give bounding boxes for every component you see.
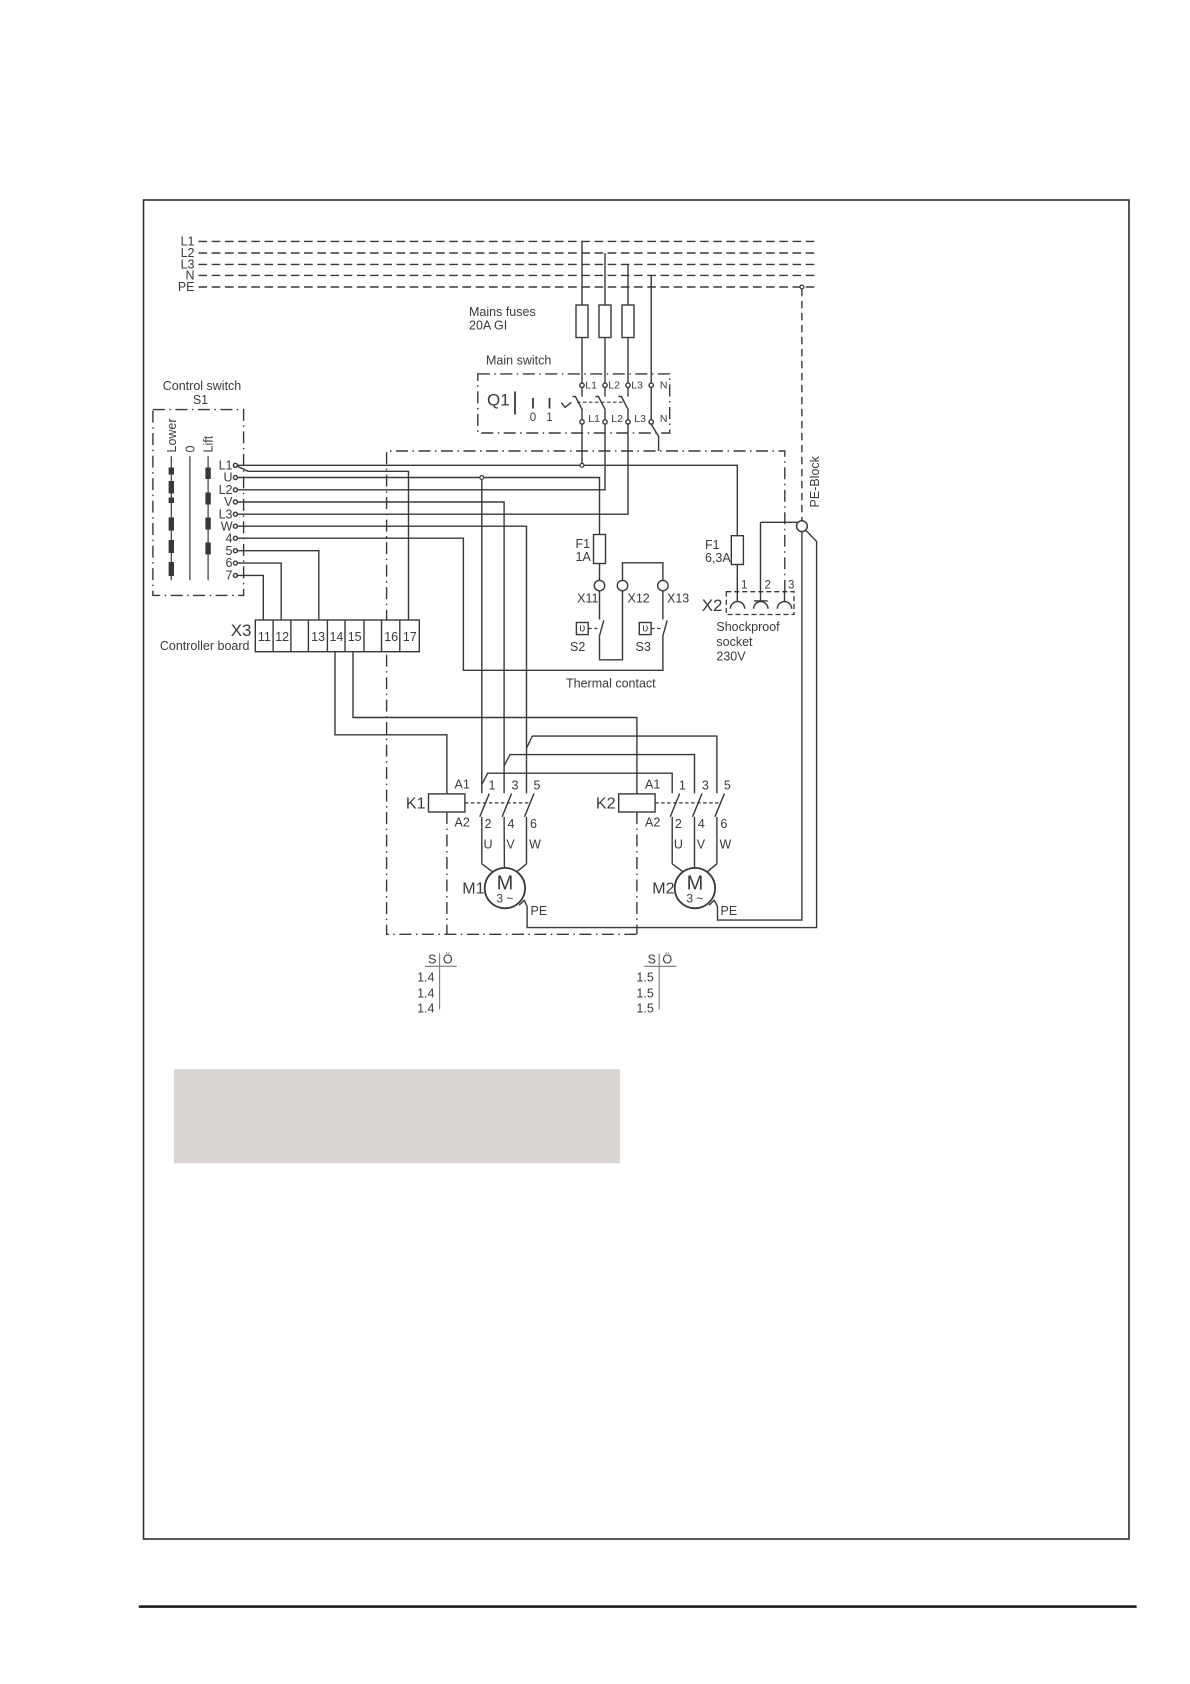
svg-text:PE: PE (721, 904, 738, 918)
svg-text:N: N (660, 380, 668, 392)
svg-text:5: 5 (534, 779, 541, 793)
svg-text:1.4: 1.4 (417, 1002, 434, 1016)
svg-text:L2: L2 (608, 380, 620, 392)
svg-text:Controller board: Controller board (160, 639, 250, 653)
svg-text:1: 1 (741, 580, 747, 592)
svg-text:M2: M2 (652, 881, 674, 898)
svg-text:7: 7 (226, 569, 233, 583)
svg-text:L3: L3 (634, 413, 646, 425)
svg-text:X11: X11 (577, 592, 598, 606)
svg-text:F1: F1 (576, 537, 591, 551)
svg-text:Ö: Ö (443, 953, 453, 967)
svg-text:Lift: Lift (202, 435, 216, 452)
svg-text:1: 1 (546, 412, 552, 424)
svg-text:Control switch: Control switch (163, 379, 242, 393)
svg-text:K2: K2 (596, 796, 616, 813)
svg-text:1.4: 1.4 (417, 971, 434, 985)
svg-text:4: 4 (508, 817, 515, 831)
svg-text:2: 2 (675, 817, 682, 831)
svg-text:W: W (720, 838, 732, 852)
svg-text:3: 3 (788, 580, 794, 592)
svg-text:2: 2 (765, 580, 771, 592)
svg-text:14: 14 (329, 630, 343, 644)
svg-text:3: 3 (702, 779, 709, 793)
svg-text:S: S (428, 953, 436, 967)
svg-text:1: 1 (489, 779, 496, 793)
svg-text:S: S (648, 953, 656, 967)
svg-text:socket: socket (716, 635, 753, 649)
svg-text:S2: S2 (570, 640, 585, 654)
svg-text:F1: F1 (705, 538, 720, 552)
svg-text:17: 17 (403, 630, 417, 644)
svg-text:1: 1 (679, 779, 686, 793)
svg-text:230V: 230V (716, 650, 746, 664)
svg-text:W: W (529, 838, 541, 852)
svg-text:15: 15 (348, 630, 362, 644)
svg-text:3: 3 (512, 779, 519, 793)
svg-text:A2: A2 (645, 816, 660, 830)
svg-text:1.5: 1.5 (636, 1002, 653, 1016)
svg-text:6: 6 (530, 817, 537, 831)
svg-text:Thermal contact: Thermal contact (566, 677, 656, 691)
svg-text:20A GI: 20A GI (469, 319, 507, 333)
svg-text:Main switch: Main switch (486, 354, 551, 368)
svg-text:Ö: Ö (662, 953, 672, 967)
svg-text:U: U (674, 838, 683, 852)
svg-text:Lower: Lower (165, 418, 179, 452)
svg-text:V: V (697, 838, 706, 852)
svg-text:X13: X13 (667, 592, 689, 606)
svg-text:6,3A: 6,3A (705, 551, 731, 565)
svg-text:6: 6 (720, 817, 727, 831)
svg-text:11: 11 (258, 630, 271, 644)
svg-text:N: N (660, 413, 668, 425)
svg-text:3 ~: 3 ~ (496, 892, 513, 906)
svg-text:0: 0 (183, 446, 197, 453)
svg-text:U: U (484, 838, 493, 852)
svg-text:V: V (506, 838, 515, 852)
svg-text:12: 12 (275, 630, 289, 644)
svg-text:16: 16 (384, 630, 398, 644)
svg-text:X3: X3 (231, 621, 252, 640)
svg-text:Shockproof: Shockproof (716, 620, 780, 634)
svg-text:A1: A1 (455, 778, 470, 792)
svg-text:Mains fuses: Mains fuses (469, 305, 536, 319)
svg-text:0: 0 (530, 412, 536, 424)
svg-text:L3: L3 (631, 380, 643, 392)
svg-text:S3: S3 (636, 640, 651, 654)
svg-text:K1: K1 (406, 796, 426, 813)
svg-text:1.5: 1.5 (636, 971, 653, 985)
svg-text:1A: 1A (576, 550, 592, 564)
svg-text:1.5: 1.5 (636, 986, 653, 1000)
svg-text:A2: A2 (455, 816, 470, 830)
svg-text:3 ~: 3 ~ (686, 892, 703, 906)
svg-text:1.4: 1.4 (417, 986, 434, 1000)
svg-text:5: 5 (724, 779, 731, 793)
svg-text:L2: L2 (611, 413, 623, 425)
svg-text:L1: L1 (585, 380, 597, 392)
svg-text:S1: S1 (193, 393, 208, 407)
svg-text:υ: υ (642, 623, 648, 635)
svg-text:A1: A1 (645, 778, 660, 792)
svg-text:M1: M1 (462, 881, 484, 898)
svg-text:PE: PE (531, 904, 548, 918)
svg-text:υ: υ (579, 623, 585, 635)
svg-text:Q1: Q1 (487, 391, 510, 410)
svg-text:X12: X12 (628, 592, 650, 606)
svg-text:13: 13 (311, 630, 325, 644)
svg-text:2: 2 (485, 817, 492, 831)
svg-text:PE: PE (178, 280, 195, 294)
svg-text:L1: L1 (588, 413, 600, 425)
svg-text:X2: X2 (702, 596, 723, 615)
svg-text:PE-Block: PE-Block (808, 455, 822, 507)
svg-text:4: 4 (698, 817, 705, 831)
